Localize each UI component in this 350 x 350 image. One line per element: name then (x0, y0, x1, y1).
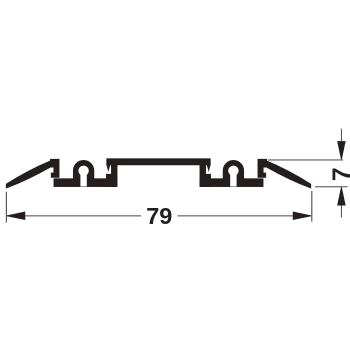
width dimension left arrowhead (7, 212, 25, 219)
upper extension line of height dimension (268, 159, 343, 160)
lower extension line of height dimension (315, 186, 348, 187)
width dimension right arrowhead (293, 212, 311, 219)
right keyhole slot (230, 171, 236, 187)
right web wall joining plate to base (200, 164, 206, 187)
left wall base step (107, 174, 113, 186)
width dimension line left segment (7, 215, 141, 216)
right wall base step (205, 174, 211, 186)
left keyhole slot (80, 171, 86, 187)
right extension line of width dimension (311, 191, 312, 222)
top plate of profile body (107, 159, 210, 165)
height dimension upper arrowhead (338, 142, 345, 160)
right base flange bar (200, 179, 263, 187)
left retaining tooth under plate (107, 165, 110, 171)
right screw channel arch (223, 160, 243, 181)
left base flange bar (54, 179, 117, 187)
left keyhole screw hole (78, 166, 88, 176)
left extension line of width dimension (6, 192, 7, 223)
right ramp wing of profile (258, 159, 311, 188)
right retaining tooth under plate (207, 165, 210, 171)
left web wall joining plate to base (112, 164, 118, 187)
left screw channel arch (73, 160, 93, 181)
svg-text:7: 7 (328, 167, 350, 181)
height dimension upper arrow leader line (341, 129, 342, 145)
right keyhole screw hole (228, 166, 238, 176)
height dimension lower arrowhead (338, 187, 345, 205)
height dimension lower arrow leader line (341, 203, 342, 218)
svg-text:79: 79 (146, 203, 172, 229)
width dimension line right segment (178, 215, 312, 216)
left ramp wing of profile (6, 159, 59, 188)
